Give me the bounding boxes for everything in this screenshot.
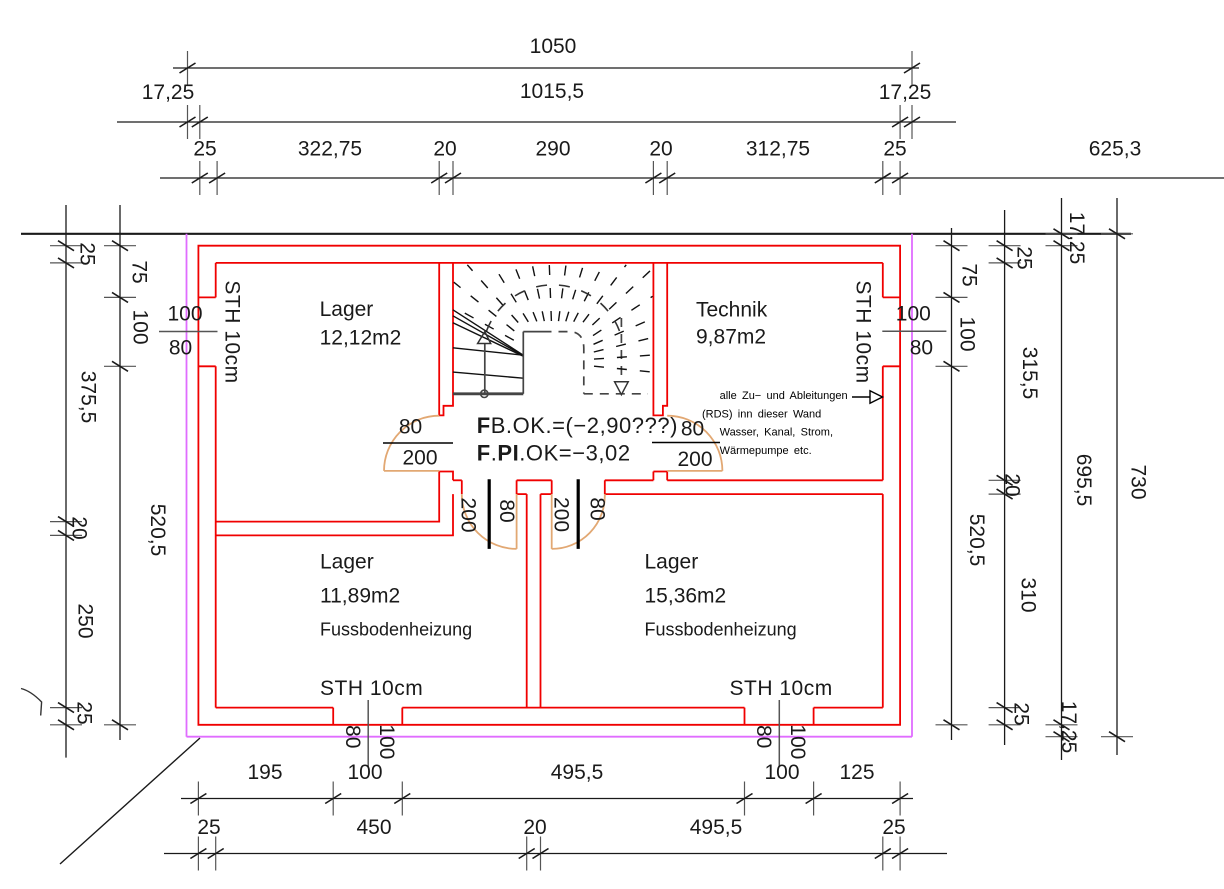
staircase: solid flight steps (453, 310, 523, 378)
room label Lager 11,89m2 Fussbodenheizung (320, 551, 472, 640)
svg-text:200: 200 (402, 447, 437, 470)
window W-right jambs (883, 297, 900, 366)
svg-text:25: 25 (197, 816, 220, 839)
svg-text:80: 80 (399, 416, 422, 439)
svg-text:17,25: 17,25 (1057, 701, 1080, 754)
svg-text:315,5: 315,5 (1018, 347, 1041, 400)
dimension line right D: 730 (1101, 198, 1149, 755)
svg-text:25: 25 (883, 138, 906, 161)
svg-text:Technik: Technik (696, 299, 768, 322)
door D4 size 80/200 (652, 418, 720, 472)
staircase: walk line with circle and up arrow (478, 332, 491, 398)
svg-text:80: 80 (681, 418, 704, 441)
door D3 size 80/200 (383, 416, 453, 470)
svg-text:Lager: Lager (320, 551, 374, 574)
svg-text:11,89m2: 11,89m2 (320, 585, 400, 608)
svg-text:80: 80 (341, 725, 364, 748)
staircase: dashed winder fan (454, 265, 653, 372)
window W-left jambs (198, 297, 215, 366)
outer wall outer face (198, 246, 900, 725)
window W-bottom2 jambs (745, 708, 814, 725)
break symbol left (21, 689, 42, 716)
svg-text:200: 200 (549, 497, 572, 532)
wall note leader arrow (852, 391, 883, 403)
svg-text:25: 25 (75, 242, 98, 265)
svg-text:Wasser, Kanal, Strom,: Wasser, Kanal, Strom, (720, 427, 833, 439)
svg-text:20: 20 (523, 816, 546, 839)
svg-text:15,36m2: 15,36m2 (645, 585, 727, 608)
staircase: bottom edge and well outline (453, 332, 648, 394)
svg-text:20: 20 (1000, 473, 1023, 496)
svg-text:250: 250 (73, 603, 96, 638)
svg-text:20: 20 (67, 516, 90, 539)
svg-text:F.PI.OK=−3,02: F.PI.OK=−3,02 (477, 441, 631, 466)
svg-text:25: 25 (1012, 246, 1035, 269)
door D3 upper-left (into Lager12): leaf, arc (384, 416, 439, 471)
dimension line left inner: 75/100/520,5 (104, 205, 169, 740)
svg-text:Wärmepumpe etc.: Wärmepumpe etc. (720, 445, 812, 457)
svg-text:17,25: 17,25 (142, 81, 195, 104)
svg-text:STH 10cm: STH 10cm (852, 280, 875, 383)
room label Technik 9,87m2 (696, 299, 768, 349)
window W-bottom2 size 80/100 rotated (752, 700, 809, 767)
svg-text:495,5: 495,5 (690, 816, 743, 839)
svg-text:12,12m2: 12,12m2 (320, 327, 402, 350)
svg-text:alle Zu− und Ableitungen: alle Zu− und Ableitungen (720, 390, 848, 402)
window W-left size 100/80 (159, 303, 218, 360)
svg-text:100: 100 (128, 309, 151, 344)
svg-text:80: 80 (169, 337, 192, 360)
staircase: dashed walk-line arc (487, 285, 620, 331)
svg-text:25: 25 (1009, 702, 1032, 725)
svg-text:20: 20 (649, 138, 672, 161)
level annotation FB.OK / F.PI.OK (477, 413, 678, 466)
svg-text:312,75: 312,75 (746, 138, 810, 161)
wall note text: alle Zu- und Ableitungen ... (702, 390, 848, 457)
svg-text:1050: 1050 (530, 35, 577, 58)
svg-text:100: 100 (786, 724, 809, 759)
svg-text:25: 25 (72, 701, 95, 724)
svg-text:375,5: 375,5 (77, 371, 100, 424)
svg-text:STH 10cm: STH 10cm (730, 677, 833, 700)
outer wall inner face with window breaks (216, 263, 883, 708)
door D2 size 200/80 rotated (549, 497, 608, 532)
svg-text:75: 75 (127, 260, 150, 283)
site boundary diagonal bottom-left (60, 738, 200, 864)
svg-text:495,5: 495,5 (551, 761, 604, 784)
svg-text:(RDS) inn dieser Wand: (RDS) inn dieser Wand (702, 408, 821, 420)
svg-text:100: 100 (375, 724, 398, 759)
svg-text:625,3: 625,3 (1089, 138, 1142, 161)
partition A (Lager12/stair) with door stop notch (439, 263, 453, 416)
door D1 size 200/80 rotated (456, 497, 518, 532)
svg-text:290: 290 (535, 138, 570, 161)
door D1 lower-left: leaf line, swing arc, panel mark (462, 479, 517, 549)
STH label right wall (rotated) (852, 280, 875, 383)
svg-text:Lager: Lager (645, 551, 699, 574)
STH label left wall (rotated) (221, 280, 244, 383)
svg-text:100: 100 (896, 303, 931, 326)
svg-text:80: 80 (585, 497, 608, 520)
svg-text:520,5: 520,5 (965, 514, 988, 567)
staircase: down arrow with dashed stem (615, 318, 629, 395)
dimension row top 1: 1050 (173, 35, 920, 85)
svg-text:17,25: 17,25 (879, 81, 932, 104)
room label Lager 12,12m2 (320, 298, 402, 350)
partition B (Lager11/Lager15) (527, 494, 541, 707)
room label Lager 15,36m2 Fussbodenheizung (645, 551, 797, 640)
svg-text:125: 125 (839, 761, 874, 784)
svg-text:75: 75 (957, 263, 980, 286)
partition C (stair/Technik) with door stop notch (653, 263, 667, 416)
svg-text:25: 25 (882, 816, 905, 839)
svg-text:100: 100 (167, 303, 202, 326)
svg-text:Lager: Lager (320, 298, 374, 321)
dimension line left outer: 25/375,5/20/250/25 (50, 205, 100, 758)
svg-text:80: 80 (910, 337, 933, 360)
window W-bottom1 jambs (333, 708, 402, 725)
dimension row bottom 1: 195/100/495,5/100/125 (181, 761, 913, 816)
svg-text:100: 100 (764, 761, 799, 784)
dimension line right C: 17,25/695,5/17,25 (1046, 198, 1096, 760)
svg-text:695,5: 695,5 (1072, 454, 1095, 507)
middle wall (y 480-494) with doors and notch (453, 472, 883, 495)
svg-text:1015,5: 1015,5 (520, 80, 584, 103)
svg-text:322,75: 322,75 (298, 138, 362, 161)
svg-text:100: 100 (955, 316, 978, 351)
svg-text:25: 25 (193, 138, 216, 161)
wall stub below upper-left door, Lager12 bottom wall (216, 472, 453, 536)
svg-text:STH 10cm: STH 10cm (221, 280, 244, 383)
svg-text:9,87m2: 9,87m2 (696, 326, 766, 349)
svg-text:520,5: 520,5 (146, 504, 169, 557)
insulation outline (magenta) (187, 234, 913, 737)
svg-text:450: 450 (356, 816, 391, 839)
svg-text:Fussbodenheizung: Fussbodenheizung (320, 620, 472, 640)
svg-text:100: 100 (347, 761, 382, 784)
window W-bottom1 size 80/100 rotated (341, 700, 398, 767)
dimension line right B: 25/315,5/20/310/25 (989, 210, 1041, 745)
dimension line right A: 75/100/520,5 (936, 228, 989, 740)
dimension row top 3: 25/322,75/20/290/20/312,75/25/625,3 (160, 138, 1224, 196)
svg-text:200: 200 (677, 448, 712, 471)
svg-text:195: 195 (247, 761, 282, 784)
T-cap over partition B (517, 480, 552, 494)
door D4 upper-right (into Technik): leaf, arc (667, 416, 722, 471)
window W-right size 100/80 (882, 303, 946, 360)
svg-text:FB.OK.=(−2,90???): FB.OK.=(−2,90???) (477, 413, 678, 438)
svg-text:STH 10cm: STH 10cm (320, 677, 423, 700)
STH labels bottom windows (320, 677, 423, 700)
dimension row bottom 2: 25/450/20/495,5/25 (164, 816, 947, 871)
dimension row top 2: 17,25 / 1015,5 / 17,25 (117, 80, 956, 139)
svg-text:Fussbodenheizung: Fussbodenheizung (645, 620, 797, 640)
site boundary top line (21, 233, 1131, 235)
svg-text:80: 80 (495, 499, 518, 522)
svg-text:17,25: 17,25 (1065, 212, 1088, 265)
svg-text:80: 80 (752, 725, 775, 748)
svg-text:730: 730 (1126, 464, 1149, 499)
door D2 lower-right: leaf, arc, panel mark (552, 479, 605, 549)
svg-text:310: 310 (1016, 577, 1039, 612)
svg-text:200: 200 (456, 497, 479, 532)
svg-text:20: 20 (433, 138, 456, 161)
